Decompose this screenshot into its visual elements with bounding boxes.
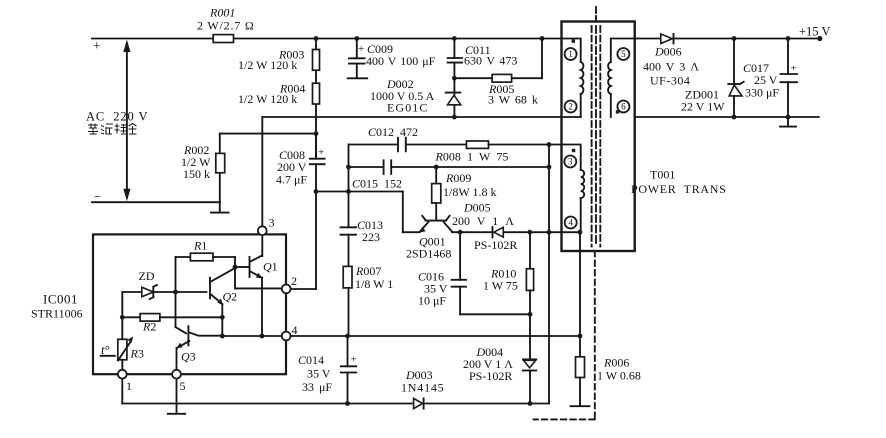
svg-text:2: 2 xyxy=(291,274,297,288)
resistor R010 xyxy=(483,232,534,359)
capacitor C015 xyxy=(349,145,550,192)
transistor Q1 xyxy=(250,256,278,336)
capacitor C013 xyxy=(341,192,384,267)
svg-text:5: 5 xyxy=(621,49,626,59)
svg-text:1 W 75: 1 W 75 xyxy=(483,279,518,293)
winding pins 3-4 (primary aux) xyxy=(549,145,584,233)
node: pin circle 3 xyxy=(564,156,576,168)
svg-text:330 μF: 330 μF xyxy=(745,86,779,100)
svg-text:33 μF: 33 μF xyxy=(302,380,332,394)
svg-text:R008 1 W 75: R008 1 W 75 xyxy=(435,150,509,164)
capacitor C017 xyxy=(743,39,797,118)
svg-text:3 W 68 k: 3 W 68 k xyxy=(488,92,538,106)
svg-text:400 V 3 Λ: 400 V 3 Λ xyxy=(643,60,699,74)
svg-text:D005: D005 xyxy=(463,201,491,215)
pin 5 xyxy=(172,370,185,393)
wire: pin5 lead to ground xyxy=(176,379,178,413)
svg-text:T001: T001 xyxy=(650,168,675,182)
transformer core dashed lines xyxy=(592,7,601,247)
svg-text:R3: R3 xyxy=(130,347,144,361)
capacitor C009 xyxy=(349,39,436,78)
resistor R003 xyxy=(238,39,320,159)
svg-text:−: − xyxy=(94,189,101,204)
resistor R005 xyxy=(454,39,542,107)
resistor R008 xyxy=(435,141,550,164)
svg-text:R1: R1 xyxy=(193,239,207,253)
svg-text:+: + xyxy=(318,147,324,159)
svg-text:AC 220 V: AC 220 V xyxy=(86,110,148,124)
svg-text:1/2 W 120 k: 1/2 W 120 k xyxy=(238,58,297,72)
svg-text:R2: R2 xyxy=(142,320,156,334)
pin 3 xyxy=(258,216,275,236)
zener ZD001 xyxy=(681,39,744,118)
svg-text:6: 6 xyxy=(621,102,626,112)
svg-text:4: 4 xyxy=(292,323,298,337)
svg-text:IC001: IC001 xyxy=(43,292,78,307)
svg-text:R001: R001 xyxy=(209,6,235,20)
resistor R009 xyxy=(432,167,497,219)
svg-text:1/2 W 120 k: 1/2 W 120 k xyxy=(238,92,297,106)
resistor R004 xyxy=(238,82,320,107)
svg-text:ZD: ZD xyxy=(139,269,155,283)
pin 1 xyxy=(118,370,132,393)
op-amp IC001 STR11006 block xyxy=(31,234,286,374)
svg-text:D006: D006 xyxy=(654,45,682,59)
svg-text:UF-304: UF-304 xyxy=(650,74,690,88)
svg-text:4: 4 xyxy=(568,218,573,228)
svg-text:C012 472: C012 472 xyxy=(368,125,418,139)
svg-text:1/8W 1.8 k: 1/8W 1.8 k xyxy=(443,185,496,199)
svg-text:PS-102R: PS-102R xyxy=(469,369,512,383)
svg-text:150 k: 150 k xyxy=(183,167,210,181)
ground under C009 xyxy=(348,77,368,79)
svg-text:R009: R009 xyxy=(445,171,471,185)
svg-text:1: 1 xyxy=(568,49,573,59)
diode D005 xyxy=(452,201,580,253)
wire: secondary lower rail xyxy=(635,116,819,118)
capacitor C016 xyxy=(418,232,530,314)
wire: long vertical from C012/C015 to bottom xyxy=(548,145,550,404)
resistor R2 xyxy=(122,314,222,334)
wire: +15V rail xyxy=(635,25,831,39)
winding pins 5-6 (secondary) xyxy=(608,39,635,118)
svg-text:3: 3 xyxy=(568,157,573,167)
svg-text:2SD1468: 2SD1468 xyxy=(406,247,451,261)
ground under R006 xyxy=(571,405,590,407)
ground under pin 5 xyxy=(168,413,185,415)
node: pin circle 5 xyxy=(617,48,629,60)
node: pin circle 6 xyxy=(617,101,629,113)
svg-text:2 W/2.7 Ω: 2 W/2.7 Ω xyxy=(197,19,255,33)
svg-text:5: 5 xyxy=(180,379,186,393)
svg-text:35 V: 35 V xyxy=(307,367,331,381)
diode D003 xyxy=(401,368,444,409)
winding pins 1-2 (primary) xyxy=(562,39,584,118)
resistor R006 xyxy=(576,232,641,405)
capacitor C014 xyxy=(298,336,357,404)
svg-text:Q3: Q3 xyxy=(181,350,196,364)
svg-text:2: 2 xyxy=(568,102,573,112)
resistor R001 xyxy=(197,6,255,43)
node: pin circle 1 xyxy=(565,48,577,60)
node: pin circle 4 xyxy=(565,217,577,229)
wire: pin4 line to R006 xyxy=(291,335,580,337)
svg-text:10 μF: 10 μF xyxy=(418,293,446,307)
transformer T001 xyxy=(562,22,727,252)
svg-text:22 V 1W: 22 V 1W xyxy=(681,99,725,113)
capacitor C011 xyxy=(448,39,518,118)
svg-text:1 W 0.68: 1 W 0.68 xyxy=(597,369,641,383)
node: pin circle 2 xyxy=(565,101,577,113)
wire: C008 bottom net to Q001 xyxy=(291,192,420,290)
transistor Q2 xyxy=(210,268,237,336)
capacitor C008 xyxy=(276,134,325,192)
svg-text:4.7 μF: 4.7 μF xyxy=(276,173,307,187)
svg-text:PS-102R: PS-102R xyxy=(474,238,517,252)
svg-text:R007: R007 xyxy=(355,264,381,278)
ground under C017 xyxy=(780,117,796,127)
pin 2 xyxy=(282,274,297,293)
wire: negative input wire xyxy=(92,189,220,204)
svg-text:+: + xyxy=(93,38,101,53)
pin 4 xyxy=(282,323,298,340)
svg-text:Q2: Q2 xyxy=(223,290,238,304)
capacitor C012 xyxy=(349,125,467,151)
diode D004 xyxy=(463,345,536,404)
svg-text:Q1: Q1 xyxy=(263,260,278,274)
zener ZD xyxy=(122,269,206,299)
svg-text:C014: C014 xyxy=(298,353,324,367)
svg-text:223: 223 xyxy=(362,230,380,244)
thermistor R3 xyxy=(101,292,144,370)
svg-text:EG01C: EG01C xyxy=(387,101,429,115)
svg-text:R006: R006 xyxy=(603,356,629,370)
resistor R002 xyxy=(181,134,316,203)
transistor Q001 xyxy=(406,216,492,261)
svg-text:+: + xyxy=(358,43,364,55)
wire: top positive rail xyxy=(92,38,562,53)
transistor Q3 xyxy=(177,326,223,370)
wire: R1 to Q1 base / pin2 riser xyxy=(235,257,282,288)
svg-text:+: + xyxy=(351,354,357,366)
svg-text:200 V 1 Λ: 200 V 1 Λ xyxy=(452,214,514,228)
svg-text:STR11006: STR11006 xyxy=(31,307,83,321)
svg-text:+15 V: +15 V xyxy=(799,25,830,39)
wire: pin3 stem inside box xyxy=(261,235,263,256)
svg-text:POWER TRANS: POWER TRANS xyxy=(631,182,727,196)
node: AC input dimension arrow xyxy=(86,40,148,202)
wire: bottom ground wire xyxy=(122,403,549,405)
diode D002 xyxy=(370,77,461,115)
wire: second rail xyxy=(262,117,580,226)
wire: dashed feedback line xyxy=(534,251,595,419)
ground under R002 xyxy=(211,202,229,212)
wire: ZD node down to Q3 base xyxy=(176,257,187,333)
svg-text:1: 1 xyxy=(126,379,132,393)
node junction dots xyxy=(120,36,823,406)
diode D006 xyxy=(643,34,699,88)
wire: pin1 lead xyxy=(121,379,123,404)
svg-text:1N4145: 1N4145 xyxy=(401,381,444,395)
svg-text:C015 152: C015 152 xyxy=(352,177,402,191)
resistor R007 xyxy=(343,264,393,336)
svg-text:3: 3 xyxy=(269,216,275,230)
node: label 整流输入 (pseudo glyphs) xyxy=(88,124,137,135)
svg-text:630 V 473: 630 V 473 xyxy=(464,54,517,68)
svg-text:1/8 W 1: 1/8 W 1 xyxy=(355,277,393,291)
svg-text:+: + xyxy=(791,63,797,75)
resistor R1 xyxy=(176,239,236,261)
svg-text:400 V 100 μF: 400 V 100 μF xyxy=(366,54,436,68)
